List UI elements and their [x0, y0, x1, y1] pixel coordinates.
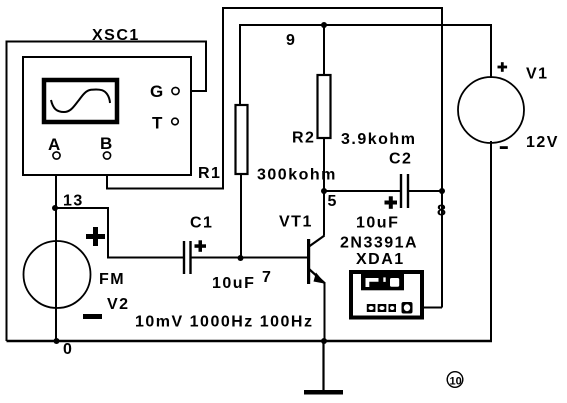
svg-text:10uF: 10uF — [356, 215, 399, 232]
resistor R2 — [318, 75, 331, 138]
svg-text:9: 9 — [286, 32, 296, 49]
svg-text:G: G — [150, 82, 165, 101]
node 13 junction — [52, 205, 58, 211]
node 5 junction — [321, 188, 327, 194]
svg-text:10: 10 — [450, 376, 462, 388]
node 8 junction — [439, 188, 445, 194]
svg-text:10uF: 10uF — [212, 275, 255, 292]
svg-text:3.9kohm: 3.9kohm — [341, 131, 416, 148]
oscilloscope XSC1 — [23, 57, 191, 175]
junction rail to R2 — [321, 22, 327, 28]
wire ground-net border loop (G terminal to left/bottom border) — [7, 42, 207, 342]
wire node 13 to C1 left plate — [55, 208, 183, 258]
resistor R1 — [236, 105, 248, 174]
svg-text:5: 5 — [328, 193, 338, 210]
svg-text:V1: V1 — [526, 66, 549, 83]
node 7 junction — [238, 255, 244, 261]
wire node 5 to C2 left plate — [324, 190, 400, 192]
svg-text:XSC1: XSC1 — [92, 27, 140, 44]
wire R2 branch (rail to node 5 to collector bend) — [323, 25, 325, 236]
capacitor C1 — [184, 240, 206, 274]
wire right border (V1 minus to bottom rail) — [490, 141, 492, 341]
svg-text:8: 8 — [437, 203, 447, 220]
junction emitter to ground rail — [321, 338, 327, 344]
svg-text:0: 0 — [63, 341, 73, 358]
svg-text:FM: FM — [99, 271, 125, 288]
distortion analyzer XDA1 — [351, 272, 422, 318]
svg-text:7: 7 — [262, 269, 272, 286]
svg-text:C1: C1 — [190, 215, 213, 232]
ground — [304, 341, 343, 395]
wire R1 bottom lead to node 7 — [240, 174, 242, 258]
transistor VT1 — [307, 236, 326, 285]
circled figure number 10 — [447, 372, 463, 388]
svg-text:300kohm: 300kohm — [257, 167, 337, 184]
wire emitter to ground junction — [324, 283, 326, 341]
svg-text:V2: V2 — [107, 296, 130, 313]
capacitor C2 — [385, 174, 409, 209]
svg-text:T: T — [152, 114, 164, 133]
source V1 — [458, 62, 524, 149]
wire V+ rail (V1 plus to R1 top, via R2 top) — [240, 25, 491, 105]
svg-text:2N3391A: 2N3391A — [340, 235, 418, 252]
svg-text:12V: 12V — [526, 134, 559, 151]
svg-text:VT1: VT1 — [279, 214, 313, 231]
wire A channel down through FM source to node 0 — [55, 159, 57, 341]
wire node-8 top rail (B channel to node 8) — [107, 8, 442, 308]
svg-text:R2: R2 — [292, 130, 315, 147]
wire XDA1 terminal to node 8 branch — [412, 307, 442, 309]
svg-text:13: 13 — [63, 193, 84, 210]
wire C1 right plate to transistor base — [192, 257, 309, 259]
svg-text:R1: R1 — [198, 165, 221, 182]
svg-text:C2: C2 — [389, 151, 412, 168]
svg-text:XDA1: XDA1 — [356, 251, 405, 268]
svg-text:B: B — [100, 134, 114, 153]
wire C2 right plate to node 8 — [409, 190, 442, 192]
svg-text:10mV 1000Hz 100Hz: 10mV 1000Hz 100Hz — [135, 314, 313, 331]
source V2 (FM) — [24, 227, 106, 319]
wire bottom rail — [7, 340, 493, 343]
node 0 junction — [54, 338, 60, 344]
svg-text:A: A — [48, 135, 62, 154]
